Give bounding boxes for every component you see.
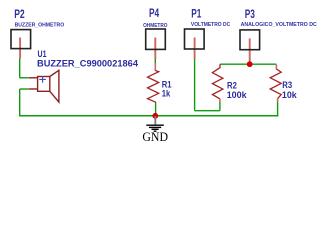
wire: P3 stub to net <box>249 58 251 64</box>
resistor R1 body <box>148 71 159 103</box>
wire: R1 bottom to rail <box>155 102 157 116</box>
buzzer U1 cone <box>50 70 59 102</box>
resistor R2 pin 2 <box>219 99 221 102</box>
wire: P1 to R2 bottom horizontal <box>195 110 220 112</box>
connector P1 box fill <box>185 29 205 49</box>
buzzer U1 plus sign <box>39 76 46 83</box>
ground bar 3 <box>152 128 159 130</box>
wire: R3 bottom to rail <box>277 102 279 116</box>
connector P4 box border <box>146 29 166 49</box>
svg-text:OHMETRO: OHMETRO <box>143 23 168 29</box>
connector P2 box fill <box>11 30 31 49</box>
wire: R2 bottom stub <box>219 102 221 111</box>
wire: buzzer pin2 horizontal <box>20 88 29 90</box>
svg-text:1k: 1k <box>162 88 171 98</box>
wire: buzzer pin1 horizontal <box>20 77 29 79</box>
wire: P2 vertical down to buzzer top <box>19 59 21 78</box>
svg-text:P2: P2 <box>14 9 25 21</box>
connector P1 box border <box>185 29 205 49</box>
connector P2 pin stub <box>19 38 21 59</box>
ground lead <box>154 116 156 124</box>
resistor R3 pin 2 <box>277 99 279 103</box>
svg-text:P4: P4 <box>149 8 160 20</box>
connector P1 pin stub <box>194 38 196 59</box>
ground bar 1 <box>146 124 164 126</box>
resistor R2 body <box>212 64 223 99</box>
svg-text:U1: U1 <box>38 49 47 59</box>
resistor R3 pin 1 <box>275 64 277 69</box>
wire: bottom GND rail <box>19 115 278 117</box>
wire: top net R2-P3-R3 <box>220 63 276 65</box>
connector P4 pin stub <box>154 38 156 60</box>
svg-text:BUZZER_C9900021864: BUZZER_C9900021864 <box>37 59 139 69</box>
svg-text:P1: P1 <box>191 8 202 20</box>
svg-text:10k: 10k <box>282 90 298 100</box>
wire: buzzer bottom down to rail <box>19 89 21 116</box>
connector P3 box border <box>240 30 260 50</box>
connector P3 pin stub <box>249 38 251 61</box>
connector P3 box fill <box>240 30 260 50</box>
svg-text:BUZZER_OHMETRO: BUZZER_OHMETRO <box>15 23 65 29</box>
buzzer U1 body <box>38 77 50 92</box>
connector P4 box fill <box>146 29 166 49</box>
junction dot node GND rail <box>152 113 158 119</box>
svg-text:VOLTMETRO DC: VOLTMETRO DC <box>191 22 230 28</box>
wire: P4 to R1 top <box>154 59 156 64</box>
buzzer U1 pin 1 <box>29 77 38 79</box>
svg-text:R3: R3 <box>282 80 292 90</box>
wire: P1 vertical down <box>194 59 196 111</box>
ground bar 4 <box>154 130 157 132</box>
junction dot node P3/R2/R3 <box>247 61 253 67</box>
buzzer U1 pin 2 <box>29 88 38 90</box>
svg-text:GND: GND <box>142 130 168 144</box>
connector P2 box border <box>11 30 31 49</box>
svg-text:100k: 100k <box>227 90 248 100</box>
svg-text:ANALOGICO_VOLTMETRO DC: ANALOGICO_VOLTMETRO DC <box>241 22 317 28</box>
ground bar 2 <box>149 126 161 128</box>
resistor R1 pin 1 <box>154 63 156 71</box>
svg-text:P3: P3 <box>245 9 255 21</box>
resistor R3 body <box>270 69 281 99</box>
